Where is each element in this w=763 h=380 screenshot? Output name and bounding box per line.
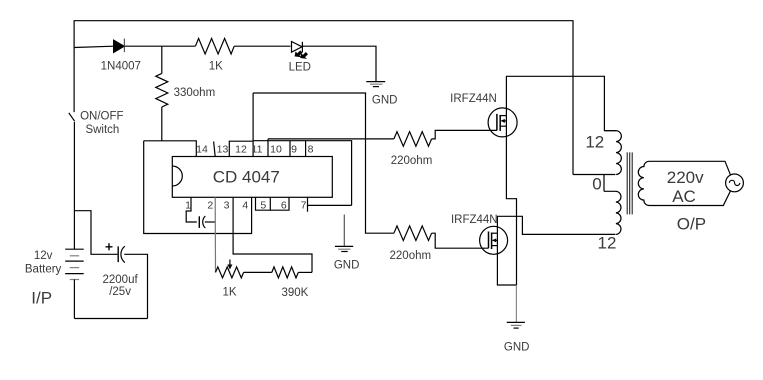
svg-text:I/P: I/P xyxy=(31,289,52,308)
svg-text:LED: LED xyxy=(289,61,311,73)
svg-text:/25v: /25v xyxy=(109,286,131,298)
svg-text:1N4007: 1N4007 xyxy=(101,61,141,73)
wire R4 to gate Q1 xyxy=(432,130,497,139)
svg-text:IRFZ44N: IRFZ44N xyxy=(451,214,498,226)
capacitor C2 xyxy=(199,216,205,228)
node junction 330ohm xyxy=(161,46,163,73)
svg-text:12: 12 xyxy=(598,233,617,252)
wire 390K to pin3 elbow xyxy=(298,271,312,273)
wire 330ohm to pin14 elbow xyxy=(161,107,163,141)
resistor R6 390K xyxy=(272,267,298,278)
svg-text:GND: GND xyxy=(504,341,530,353)
pin labels top xyxy=(196,144,313,156)
transformer T1 secondary coil xyxy=(638,161,649,205)
resistor R2 330ohm vertical xyxy=(156,73,168,107)
transformer T1 primary top coil xyxy=(604,131,621,175)
wire center tap jog xyxy=(603,175,605,192)
transistor Q2 IRFZ44N xyxy=(480,226,508,254)
resistor R4 220ohm top xyxy=(394,132,432,147)
pin 7 stub xyxy=(307,197,309,212)
wire pot to 390K xyxy=(244,271,272,273)
pin 6 box xyxy=(270,197,289,210)
svg-text:4: 4 xyxy=(242,199,248,211)
wire top rail xyxy=(74,21,573,175)
ground GND2 xyxy=(335,215,353,252)
wire center tap xyxy=(573,174,616,176)
svg-text:GND: GND xyxy=(334,259,360,271)
svg-text:12: 12 xyxy=(585,133,604,152)
ON/OFF switch blade xyxy=(69,113,75,122)
svg-text:2: 2 xyxy=(207,199,213,211)
svg-text:Switch: Switch xyxy=(85,124,119,136)
wire bottom rail xyxy=(74,318,147,320)
svg-text:ON/OFF: ON/OFF xyxy=(80,110,123,122)
potentiometer R3 1K xyxy=(216,267,244,278)
wire pin2 down to pot xyxy=(214,197,216,272)
wire pin11 riser xyxy=(252,93,254,157)
wire jog to capacitor xyxy=(74,211,117,255)
wire capacitor to bottom rail xyxy=(124,254,147,318)
wire diode to 1K xyxy=(124,45,195,47)
svg-text:9: 9 xyxy=(291,144,297,156)
svg-text:1: 1 xyxy=(185,199,191,211)
svg-text:7: 7 xyxy=(301,199,307,211)
pin 9 box xyxy=(290,141,306,157)
wire pin1 to capacitor C2 xyxy=(186,197,197,222)
wire pin12 elbow xyxy=(229,141,253,156)
pin labels bottom xyxy=(185,199,307,211)
pin 5 box xyxy=(256,197,271,210)
wire Q2 source to GND3 xyxy=(497,233,516,285)
wire pin3 elbow xyxy=(233,197,312,272)
transformer T1 primary bottom coil xyxy=(604,191,621,234)
svg-text:1K: 1K xyxy=(209,61,223,73)
diode D1 1N4007 xyxy=(114,39,125,53)
svg-text:5: 5 xyxy=(260,199,266,211)
wire secondary top to AC xyxy=(649,161,731,175)
capacitor C1 2200uf plus sign xyxy=(106,243,113,250)
transformer T1 core xyxy=(627,152,632,214)
pin 10 box xyxy=(267,139,269,157)
battery B1 12v xyxy=(65,249,84,318)
svg-text:1K: 1K xyxy=(222,287,236,299)
wire Q2 drain to transformer xyxy=(497,216,615,234)
svg-text:AC: AC xyxy=(672,187,696,206)
svg-text:10: 10 xyxy=(270,144,282,156)
svg-text:Battery: Battery xyxy=(25,264,62,276)
transistor Q1 IRFZ44N xyxy=(488,108,517,137)
wire secondary bottom to AC xyxy=(649,191,731,206)
wire switch to battery xyxy=(73,122,75,249)
AC source xyxy=(726,174,744,192)
LED D2 xyxy=(292,42,309,59)
svg-text:13: 13 xyxy=(217,144,229,156)
wire R5 to gate Q2 xyxy=(432,233,489,248)
wire pin7 xyxy=(308,204,352,206)
svg-text:330ohm: 330ohm xyxy=(174,87,216,99)
wire pin14 elbow xyxy=(144,141,197,157)
ground GND3 xyxy=(507,285,525,328)
svg-text:3: 3 xyxy=(224,199,230,211)
svg-text:220ohm: 220ohm xyxy=(391,155,433,167)
svg-text:220ohm: 220ohm xyxy=(390,250,432,262)
wire 1K to LED xyxy=(234,45,290,47)
wire LED to GND1 xyxy=(303,46,377,81)
wire pin11 to gate resistor R5 xyxy=(253,93,394,233)
wire left rail to pin4 xyxy=(144,141,252,234)
wire pin10 to gate resistor R4 xyxy=(268,138,394,140)
resistor R5 220ohm bottom xyxy=(394,226,432,241)
wire C2 to pin2 xyxy=(205,221,215,223)
svg-text:8: 8 xyxy=(308,144,314,156)
svg-text:11: 11 xyxy=(252,144,263,156)
svg-text:220v: 220v xyxy=(667,168,704,187)
svg-text:12: 12 xyxy=(235,144,247,156)
svg-text:14: 14 xyxy=(196,144,208,156)
svg-text:12v: 12v xyxy=(34,250,53,262)
wire Q1 drain to transformer xyxy=(506,76,616,130)
ground GND1 xyxy=(366,82,385,87)
svg-text:CD 4047: CD 4047 xyxy=(213,168,280,187)
svg-text:IRFZ44N: IRFZ44N xyxy=(450,93,497,105)
wire pin12 to pin7 riser xyxy=(253,141,352,206)
IC U1 CD4047 body xyxy=(172,157,332,198)
svg-text:6: 6 xyxy=(281,199,287,211)
wire battery to diode xyxy=(74,46,114,47)
capacitor C1 2200uf xyxy=(118,246,125,262)
svg-text:0: 0 xyxy=(592,175,601,194)
svg-text:O/P: O/P xyxy=(677,215,706,234)
pin 13 stub xyxy=(214,142,216,157)
wire Q1 source down xyxy=(506,116,516,285)
svg-text:2200uf: 2200uf xyxy=(103,274,139,286)
pot arrow xyxy=(227,260,232,270)
svg-text:GND: GND xyxy=(372,94,398,106)
resistor R1 1K horizontal xyxy=(195,38,234,54)
svg-text:390K: 390K xyxy=(281,287,308,299)
